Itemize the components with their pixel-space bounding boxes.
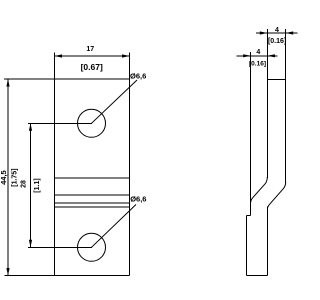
dimension 28 — [21, 123, 93, 247]
leader hole H2 — [92, 205, 137, 248]
svg-text:[1.1]: [1.1] — [34, 178, 41, 192]
svg-text:28: 28 — [21, 180, 28, 188]
dimension 4 upper — [256, 27, 298, 45]
svg-text:Ø6,6: Ø6,6 — [130, 72, 146, 81]
leader hole H1 — [92, 80, 138, 123]
hole H1 — [78, 109, 106, 137]
svg-text:4: 4 — [275, 27, 279, 34]
svg-text:[0.67]: [0.67] — [81, 62, 103, 72]
bend right edge — [267, 182, 285, 209]
svg-text:[0.16]: [0.16] — [249, 61, 266, 68]
svg-text:4: 4 — [256, 49, 260, 56]
svg-text:[1.75]: [1.75] — [11, 168, 18, 186]
side view outline — [247, 29, 286, 275]
dimension 4 lower — [237, 49, 278, 68]
dimension 17 — [55, 46, 130, 72]
hole H2 — [78, 233, 106, 261]
bend lines — [55, 178, 130, 207]
svg-text:44,5: 44,5 — [0, 170, 8, 185]
svg-text:17: 17 — [86, 46, 94, 53]
bend left edge — [251, 177, 268, 203]
svg-text:Ø6,6: Ø6,6 — [130, 194, 146, 203]
svg-text:[0.16]: [0.16] — [268, 38, 286, 45]
dimension 44,5 — [0, 79, 18, 276]
front view outline — [4, 53, 130, 276]
